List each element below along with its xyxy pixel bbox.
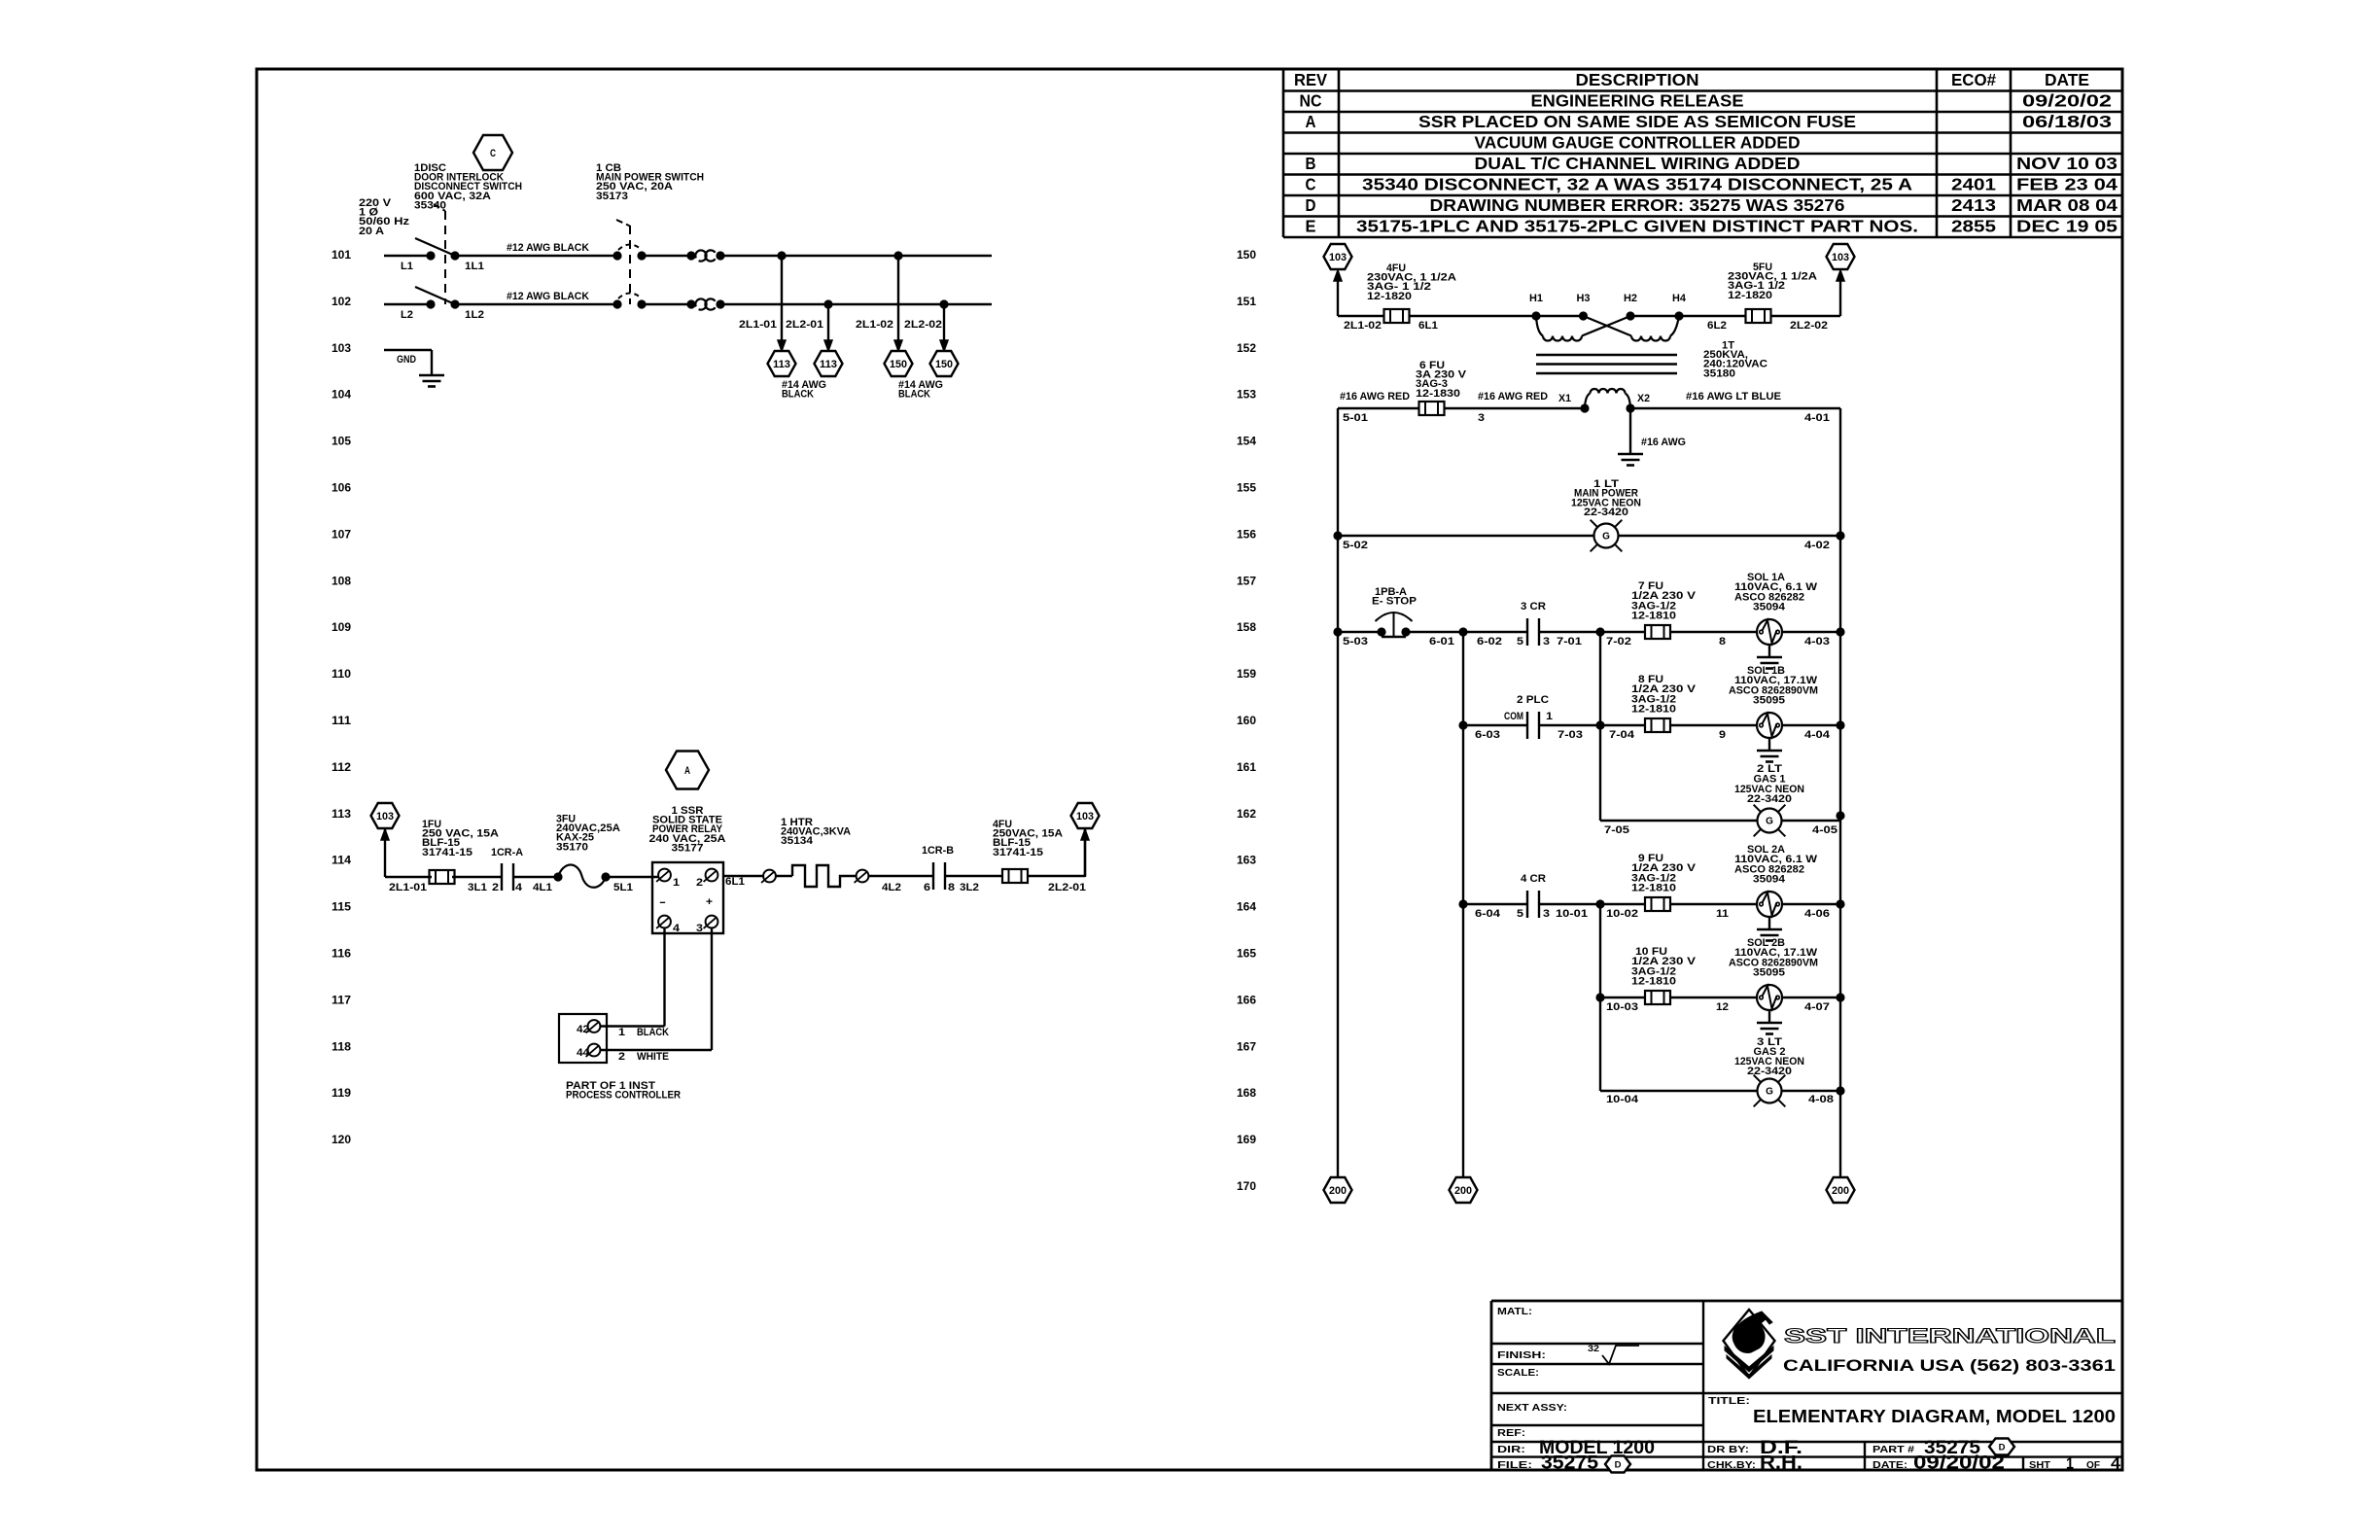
wire 114 seg d [606,876,658,878]
contact 1CR-A [501,863,503,891]
svg-text:158: 158 [1237,622,1257,634]
svg-text:169: 169 [1237,1135,1256,1146]
fuse 9FU [1645,897,1670,911]
svg-text:12-1820: 12-1820 [1367,291,1412,302]
wire 158 seg a [1338,631,1382,633]
sheet note hexagon A [666,752,709,789]
svg-text:150: 150 [890,359,907,370]
svg-text:NEXT ASSY:: NEXT ASSY: [1497,1402,1567,1414]
svg-text:7-01: 7-01 [1557,636,1582,647]
rail 2 [1462,632,1464,1177]
svg-text:4-06: 4-06 [1804,908,1830,920]
wire 166 seg c [1782,997,1840,998]
svg-text:106: 106 [332,483,351,495]
svg-text:107: 107 [332,529,351,541]
terminal 42 [588,1020,601,1032]
svg-text:D: D [1306,195,1316,215]
svg-text:119: 119 [332,1088,351,1100]
svg-text:103: 103 [1832,252,1849,263]
sheet ref hexagon 150 b [930,351,959,376]
svg-text:4 CR: 4 CR [1521,873,1546,885]
riser right 103 [1839,273,1841,316]
wire 114 seg e [723,875,763,877]
svg-text:2L1-02: 2L1-02 [1344,320,1382,332]
wire L1 segment a [384,255,431,257]
contact 2PLC [1526,712,1528,739]
svg-text:1: 1 [2066,1456,2074,1473]
svg-text:8: 8 [948,882,955,893]
svg-text:117: 117 [332,995,351,1006]
svg-text:12-1810: 12-1810 [1631,704,1676,716]
wire 153 seg b [1445,407,1585,409]
terminal 44 [588,1044,601,1057]
solenoid SOL 2A [1757,892,1782,917]
svg-text:COM: COM [1504,711,1523,722]
process controller terminal box [559,1014,607,1063]
contact 3CR [1526,618,1528,646]
svg-text:PART #: PART # [1872,1444,1914,1455]
svg-text:1CR-B: 1CR-B [922,845,954,857]
svg-text:E- STOP: E- STOP [1372,596,1417,608]
svg-text:DIR:: DIR: [1497,1444,1525,1455]
svg-text:157: 157 [1237,576,1256,587]
svg-text:5: 5 [1517,636,1523,647]
svg-text:DUAL T/C CHANNEL WIRING ADDED: DUAL T/C CHANNEL WIRING ADDED [1475,154,1801,173]
svg-text:35095: 35095 [1753,967,1785,979]
connector pair on L2 [686,299,695,308]
SSR terminal 3 [706,916,718,928]
svg-text:H1: H1 [1529,293,1543,304]
svg-text:7-04: 7-04 [1609,729,1635,741]
svg-text:4-05: 4-05 [1812,824,1837,836]
fuse 1FU [430,870,455,884]
wire L2 segment b [455,303,617,305]
svg-text:2 PLC: 2 PLC [1517,694,1549,706]
svg-text:22-3420: 22-3420 [1747,1066,1792,1077]
svg-text:SCALE:: SCALE: [1497,1367,1539,1379]
svg-text:3L2: 3L2 [960,882,979,893]
svg-text:#12 AWG BLACK: #12 AWG BLACK [507,242,589,254]
svg-text:3 CR: 3 CR [1521,601,1546,612]
svg-text:5: 5 [1517,908,1523,920]
svg-text:DATE:: DATE: [1872,1459,1907,1471]
svg-text:5-01: 5-01 [1343,412,1368,424]
svg-text:09/20/02: 09/20/02 [2022,91,2112,111]
transformer core [1536,354,1677,356]
fuse 8FU [1645,718,1670,732]
fuse 6FU [1419,402,1445,415]
svg-text:2L2-02: 2L2-02 [1790,320,1828,332]
svg-text:CALIFORNIA USA (562) 803-3361: CALIFORNIA USA (562) 803-3361 [1783,1357,2116,1375]
svg-text:3L1: 3L1 [468,882,487,893]
svg-text:200: 200 [1329,1185,1347,1197]
svg-text:113: 113 [332,809,351,821]
svg-text:BLACK: BLACK [782,389,814,401]
svg-text:1: 1 [673,877,680,889]
svg-text:DR BY:: DR BY: [1707,1444,1749,1455]
svg-text:2413: 2413 [1951,195,1996,215]
svg-text:L2: L2 [401,309,413,321]
sheet note hexagon C [473,135,512,170]
svg-text:D: D [1999,1442,2006,1452]
svg-text:6L1: 6L1 [1418,320,1438,332]
svg-text:150: 150 [935,359,953,370]
wire 114 seg a [385,876,432,878]
svg-text:110: 110 [332,669,351,681]
svg-text:12-1830: 12-1830 [1416,388,1460,400]
svg-text:ELEMENTARY DIAGRAM, MODEL 1200: ELEMENTARY DIAGRAM, MODEL 1200 [1753,1406,2116,1426]
svg-text:X2: X2 [1637,393,1650,404]
SOL 2B ground [1768,1010,1770,1023]
svg-text:DATE: DATE [2045,70,2089,89]
sheet ref hexagon 150 a [885,351,913,376]
svg-text:165: 165 [1237,949,1257,961]
svg-text:105: 105 [332,437,352,448]
secondary ground [1618,453,1643,456]
svg-text:12-1820: 12-1820 [1728,290,1772,301]
wire 151 seg b [1410,315,1584,317]
svg-text:113: 113 [820,359,837,370]
svg-text:118: 118 [332,1041,352,1053]
svg-text:115: 115 [332,902,352,914]
fuse 7FU [1645,625,1670,639]
svg-text:120: 120 [332,1135,351,1146]
svg-text:D: D [1615,1459,1622,1470]
svg-text:12-1810: 12-1810 [1631,611,1676,622]
source hexagon 103 left [371,803,400,828]
title block grid [1490,1301,1493,1471]
riser to hexagon 103 right [1084,829,1086,877]
transformer primary dots [1531,311,1540,320]
wire 151 seg d [1770,315,1840,317]
solenoid SOL 1B [1757,713,1782,738]
wire 114 seg f [868,875,933,877]
svg-text:2L1-01: 2L1-01 [739,319,777,331]
wire 160 seg d [1782,724,1840,726]
wire 158 seg e [1782,631,1840,633]
svg-text:4L2: 4L2 [882,882,901,893]
svg-text:GND: GND [397,354,416,366]
svg-text:-: - [659,896,667,908]
solenoid SOL 2B [1757,985,1782,1010]
svg-text:42: 42 [577,1024,589,1035]
svg-text:CHK.BY:: CHK.BY: [1707,1459,1756,1471]
left rail [1337,408,1339,1177]
svg-text:170: 170 [1237,1181,1256,1193]
svg-text:5-03: 5-03 [1343,636,1368,647]
svg-text:10-02: 10-02 [1606,908,1638,920]
svg-text:H3: H3 [1577,293,1591,304]
svg-text:12: 12 [1716,1001,1729,1013]
wire 114 seg b [452,876,502,878]
rail 4 [1599,904,1601,1091]
sheet ref hexagon 113 b [815,351,843,376]
svg-text:#16 AWG RED: #16 AWG RED [1478,391,1548,402]
svg-text:6: 6 [924,882,930,893]
wire 151 seg c [1630,315,1746,317]
revision table grid [1282,70,1285,237]
svg-text:NOV 10 03: NOV 10 03 [2016,154,2117,173]
SST logo diamond [1724,1310,1775,1377]
wire 160 seg c [1670,724,1757,726]
wire L2 segment a [384,303,431,305]
riser to hexagon 103 left [384,829,386,877]
svg-text:SHT: SHT [2029,1459,2051,1471]
svg-text:6L2: 6L2 [1707,320,1727,332]
svg-text:2L2-02: 2L2-02 [904,319,942,331]
svg-text:103: 103 [1076,811,1094,822]
svg-text:10-03: 10-03 [1606,1001,1638,1013]
svg-text:H2: H2 [1624,293,1637,304]
wire 153 seg a [1338,407,1418,409]
svg-text:22-3420: 22-3420 [1747,793,1792,805]
svg-text:R.H.: R.H. [1760,1453,1802,1474]
lamp 1LT [1594,524,1619,548]
svg-text:150: 150 [1237,250,1256,262]
fuse 10FU [1645,991,1670,1004]
svg-text:SSR PLACED ON SAME SIDE AS SEM: SSR PLACED ON SAME SIDE AS SEMICON FUSE [1418,112,1856,131]
ground wire 103 [384,349,432,351]
wire 114 seg g [945,875,1003,877]
svg-text:6-03: 6-03 [1475,729,1500,741]
wire 153 seg c [1630,407,1840,409]
disconnect 1DISC pole 2 [426,299,435,308]
svg-text:3: 3 [696,923,703,934]
svg-text:7-03: 7-03 [1557,729,1583,741]
wire 160 seg a [1463,724,1527,726]
transformer crossed links [1584,316,1632,336]
svg-text:2L2-01: 2L2-01 [1048,882,1086,893]
svg-text:35095: 35095 [1753,695,1785,707]
svg-text:B: B [1306,154,1316,173]
fuse 4FU heater [1002,869,1028,883]
riser left 103 [1337,273,1339,316]
wire 158 seg c [1539,631,1645,633]
right rail [1839,408,1841,1177]
svg-text:4-03: 4-03 [1804,636,1830,647]
svg-text:4-04: 4-04 [1804,729,1831,741]
ground hexagon 200 b [1450,1177,1478,1203]
svg-text:DRAWING NUMBER ERROR: 35275 WA: DRAWING NUMBER ERROR: 35275 WAS 35276 [1430,195,1845,215]
SSR output wire 2 white [711,927,713,1050]
fuse 3FU curve [553,872,562,881]
svg-text:09/20/02: 09/20/02 [1913,1453,2005,1474]
svg-text:G: G [1766,1087,1773,1098]
svg-text:4-01: 4-01 [1804,412,1830,424]
svg-text:#16 AWG RED: #16 AWG RED [1340,391,1410,402]
wire L2 segment d [720,303,992,305]
svg-text:4-08: 4-08 [1808,1094,1834,1105]
svg-text:35177: 35177 [672,842,704,854]
svg-text:155: 155 [1237,483,1257,495]
svg-text:H4: H4 [1672,293,1687,304]
svg-text:#16 AWG LT BLUE: #16 AWG LT BLUE [1686,391,1781,402]
svg-text:3: 3 [1478,412,1485,424]
drawing border frame [257,69,2122,1470]
SOL 1A ground [1768,645,1770,657]
source hexagon 103 right [1071,803,1100,828]
svg-text:32: 32 [1588,1344,1599,1353]
svg-text:REF:: REF: [1497,1427,1525,1439]
svg-text:WHITE: WHITE [637,1051,669,1063]
svg-text:161: 161 [1237,762,1257,774]
wire 114 seg h [1028,875,1086,877]
rail 3 [1599,632,1601,821]
svg-text:G: G [1602,532,1610,542]
contact 1CR-B [932,862,934,890]
svg-text:103: 103 [376,811,394,822]
secondary ground stem [1629,408,1631,454]
wire 156 [1338,535,1594,537]
svg-text:108: 108 [332,576,352,587]
svg-text:35180: 35180 [1703,367,1735,379]
sheet ref hexagon 113 a [768,351,796,376]
wire L1 segment c [642,255,691,257]
svg-text:5L1: 5L1 [613,882,633,893]
svg-text:10-04: 10-04 [1606,1094,1639,1105]
svg-text:114: 114 [332,856,352,867]
svg-text:C: C [490,148,496,159]
wire 164 seg d [1782,903,1840,905]
svg-text:2L1-02: 2L1-02 [856,319,893,331]
svg-text:5-02: 5-02 [1343,540,1368,551]
svg-text:BLACK: BLACK [898,389,930,401]
svg-text:162: 162 [1237,809,1256,821]
svg-text:104: 104 [332,390,352,402]
svg-text:4: 4 [2111,1456,2120,1473]
hexagon 103 top right [1827,244,1855,269]
ground symbol GND [419,374,444,377]
svg-text:NC: NC [1300,91,1322,111]
svg-text:1: 1 [1546,711,1553,722]
ground hexagon 200 a [1324,1177,1352,1203]
svg-text:OF: OF [2086,1459,2101,1471]
wire L1 segment b [455,255,617,257]
svg-text:3: 3 [1543,636,1550,647]
svg-text:PROCESS CONTROLLER: PROCESS CONTROLLER [566,1090,681,1102]
svg-text:200: 200 [1454,1185,1472,1197]
svg-text:159: 159 [1237,669,1256,681]
wire 158 seg d [1670,631,1757,633]
svg-text:4: 4 [515,882,523,893]
tap wire 2L2-01 [827,304,829,341]
svg-text:35175-1PLC AND 35175-2PLC GIVE: 35175-1PLC AND 35175-2PLC GIVEN DISTINCT… [1356,217,1918,236]
svg-text:2: 2 [618,1051,625,1063]
svg-text:G: G [1766,817,1773,827]
lamp 2LT [1758,809,1782,833]
svg-text:X1: X1 [1558,393,1571,404]
svg-text:A: A [684,765,690,777]
svg-text:154: 154 [1237,437,1257,448]
svg-text:1L2: 1L2 [465,309,484,321]
svg-text:4L1: 4L1 [533,882,552,893]
svg-text:35170: 35170 [556,841,588,853]
svg-text:MAR 08 04: MAR 08 04 [2016,195,2117,215]
disconnect 1DISC pole 1 [426,251,435,260]
svg-text:06/18/03: 06/18/03 [2022,112,2112,131]
transformer secondary coil [1585,394,1591,409]
svg-text:BLACK: BLACK [637,1027,669,1038]
svg-text:31741-15: 31741-15 [993,847,1043,858]
fuse 5FU [1746,309,1771,323]
svg-text:7-05: 7-05 [1604,824,1629,836]
file rev hexagon D [1605,1456,1630,1473]
svg-text:200: 200 [1832,1185,1849,1197]
svg-text:153: 153 [1237,390,1256,402]
svg-text:6L1: 6L1 [725,876,745,888]
svg-text:2855: 2855 [1951,217,1996,236]
svg-text:113: 113 [773,359,790,370]
svg-text:167: 167 [1237,1041,1256,1053]
wire 162 [1600,820,1757,822]
SSR 1SSR box [652,862,723,933]
svg-text:35134: 35134 [781,835,814,847]
svg-text:103: 103 [332,343,351,355]
svg-text:168: 168 [1237,1088,1257,1100]
hexagon 103 top left [1324,244,1352,269]
svg-text:10-01: 10-01 [1556,908,1588,920]
svg-text:151: 151 [1237,297,1257,308]
wire L1 segment d [720,255,992,257]
svg-text:35173: 35173 [596,191,628,202]
svg-text:FINISH:: FINISH: [1497,1349,1546,1361]
1DISC interlock dashed line [444,211,446,304]
svg-text:ECO#: ECO# [1951,70,1996,89]
svg-text:44: 44 [577,1047,590,1059]
svg-text:156: 156 [1237,529,1256,541]
svg-text:163: 163 [1237,856,1256,867]
svg-text:ENGINEERING RELEASE: ENGINEERING RELEASE [1531,91,1744,111]
svg-text:9: 9 [1719,729,1726,741]
ground hexagon 200 c [1827,1177,1855,1203]
SSR terminal 4 [658,916,671,928]
svg-text:C: C [1306,175,1316,194]
lamp 3LT [1758,1079,1782,1103]
svg-text:E: E [1306,217,1316,236]
svg-text:20 A: 20 A [359,226,384,237]
SOL 1B ground [1768,738,1770,751]
wire 164 seg c [1670,903,1757,905]
svg-text:4-02: 4-02 [1804,540,1830,551]
svg-text:160: 160 [1237,716,1256,727]
SSR output wire 1 black [663,927,665,1026]
svg-text:103: 103 [1329,252,1347,263]
tap wire 2L2-02 [943,304,945,341]
svg-text:#16 AWG: #16 AWG [1641,437,1686,448]
svg-text:111: 111 [332,716,352,727]
svg-text:#12 AWG BLACK: #12 AWG BLACK [507,291,589,302]
svg-text:11: 11 [1716,908,1729,920]
wire 151 seg a [1338,315,1384,317]
wire 158 seg b [1406,631,1527,633]
svg-text:12-1810: 12-1810 [1631,976,1676,988]
svg-text:35275: 35275 [1541,1453,1598,1474]
heater 1HTR [763,870,776,883]
svg-text:1CR-A: 1CR-A [491,847,523,858]
svg-text:VACUUM GAUGE CONTROLLER ADDED: VACUUM GAUGE CONTROLLER ADDED [1475,133,1801,153]
svg-text:2: 2 [492,882,499,893]
svg-text:SST INTERNATIONAL: SST INTERNATIONAL [1784,1325,2116,1347]
part rev hexagon D [1989,1439,2014,1455]
fuse 4FU control [1384,309,1410,323]
SOL 2A ground [1768,917,1770,929]
svg-text:35340: 35340 [414,199,446,211]
transformer primary coil 2 [1631,336,1670,341]
connector pair on L1 [686,251,695,260]
svg-text:31741-15: 31741-15 [422,847,472,858]
svg-text:6-04: 6-04 [1475,908,1501,920]
svg-text:3: 3 [1543,908,1550,920]
